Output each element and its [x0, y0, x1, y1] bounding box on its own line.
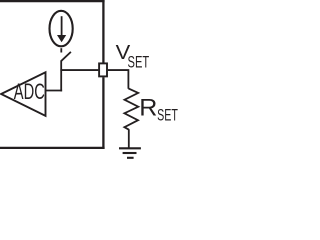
ground symbol bar 2 [123, 152, 137, 154]
wire stub from current source to switch contact [60, 48, 62, 52]
ground symbol bar 1 [119, 147, 141, 149]
switch S1 blade (open) [61, 52, 71, 61]
wire resistor to ground [128, 129, 130, 147]
current source I1 arrow shaft [61, 16, 63, 36]
op-amp ADC triangle [1, 72, 45, 116]
svg-text:SET: SET [157, 106, 178, 125]
wire top border of IC box [0, 0, 105, 2]
wire right border of IC box (lower segment) [102, 77, 104, 149]
pin pad VSET (square) [99, 63, 107, 76]
wire right border of IC box (upper segment) [102, 0, 104, 63]
wire VSET pin to resistor [108, 70, 128, 89]
svg-text:R: R [139, 95, 157, 122]
svg-text:SET: SET [128, 53, 150, 72]
wire bottom border of IC box [0, 147, 105, 149]
wire ADC output from triangle to node [46, 90, 63, 92]
wire switch pole down through junction to ADC wire [60, 60, 62, 91]
ground symbol bar 3 [127, 157, 134, 159]
svg-text:ADC: ADC [14, 79, 45, 104]
resistor RSET zigzag [124, 88, 138, 129]
current source I1 circle [50, 11, 73, 47]
wire node to VSET pin [60, 69, 98, 71]
current source I1 arrow head [57, 35, 66, 42]
